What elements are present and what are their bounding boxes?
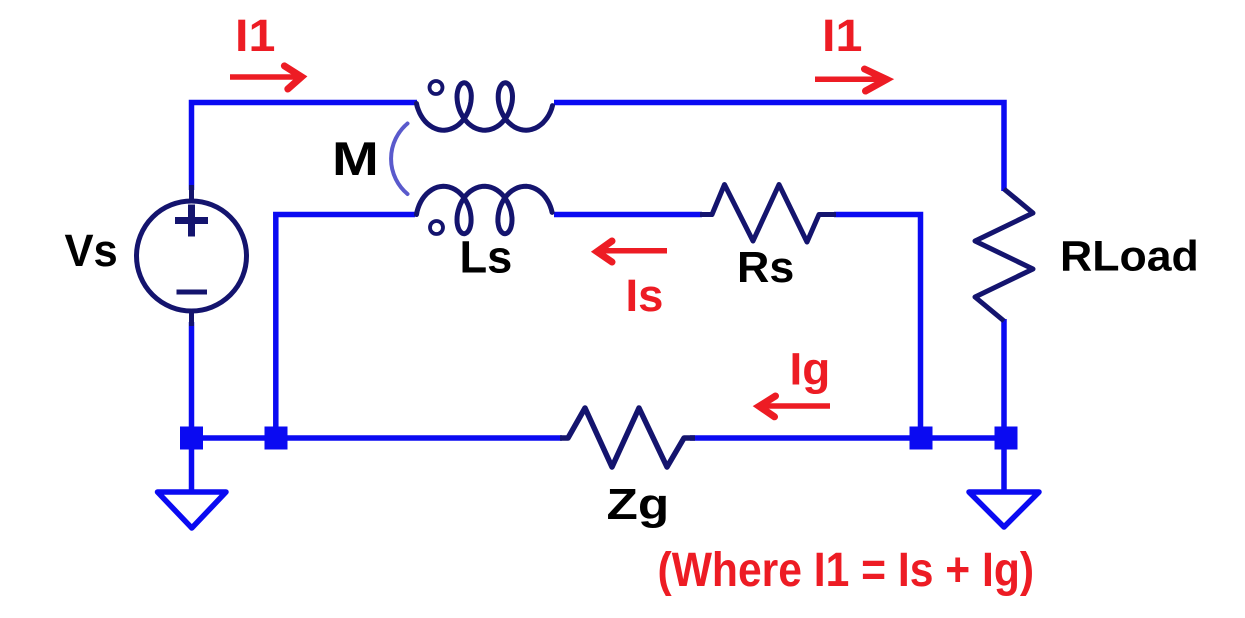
- primary dot marker: [430, 81, 443, 94]
- mutual coupling arc M: [391, 124, 407, 195]
- junction node: Vs bottom / bottom rail: [180, 427, 203, 450]
- svg-text:Rs: Rs: [737, 243, 794, 292]
- secondary coil Ls winding: [417, 186, 553, 233]
- wire: bottom rail right of Zg: [690, 435, 1006, 441]
- wire: RLoad bottom to bottom-right junction and ground stub: [1001, 319, 1007, 493]
- primary coil (transformer top winding): [417, 83, 553, 130]
- svg-text:Zg: Zg: [607, 480, 670, 529]
- Vs top stub: [189, 185, 194, 201]
- current arrow Is (leftward): [600, 248, 667, 254]
- junction node: RLoad lead / bottom rail: [995, 427, 1018, 450]
- Vs minus sign: [177, 290, 208, 295]
- svg-text:Ls: Ls: [460, 232, 513, 283]
- current arrow I1 right: [815, 76, 884, 82]
- wire: secondary coil left lead down to bottom rail: [276, 215, 415, 439]
- secondary dot marker: [430, 221, 443, 234]
- svg-text:(Where I1 = Is + Ig): (Where I1 = Is + Ig): [658, 544, 1035, 597]
- resistor RLoad: [975, 189, 1033, 321]
- svg-text:RLoad: RLoad: [1060, 233, 1199, 281]
- ground symbol left: [158, 492, 227, 528]
- voltage source Vs circle: [137, 201, 247, 311]
- svg-text:Vs: Vs: [65, 225, 118, 276]
- svg-text:I1: I1: [235, 10, 275, 61]
- svg-text:Ig: Ig: [790, 344, 831, 395]
- junction node: secondary left lead / bottom rail: [265, 427, 288, 450]
- wire: Rs to right corner down to bottom junction: [834, 215, 921, 439]
- wire: bottom rail left of Zg: [192, 435, 563, 441]
- resistor Rs: [700, 185, 836, 243]
- wire: Vs top lead up and across to primary coil: [192, 103, 418, 191]
- Vs bottom stub: [189, 311, 194, 326]
- wire: primary coil to top-right corner down to RLoad: [554, 103, 1004, 192]
- wire: secondary coil right lead to Rs: [554, 212, 702, 218]
- svg-text:Is: Is: [626, 270, 664, 321]
- svg-text:M: M: [332, 132, 379, 185]
- ground symbol right: [969, 492, 1039, 527]
- svg-text:I1: I1: [822, 10, 862, 61]
- current arrow Ig (leftward): [762, 403, 830, 409]
- Vs plus sign: [175, 217, 208, 224]
- wire: Vs bottom lead down to left junction and ground stub: [189, 322, 195, 493]
- current arrow I1 left: [230, 74, 298, 80]
- junction node: Rs lead / bottom rail: [910, 427, 933, 450]
- resistor Zg: [560, 408, 695, 467]
